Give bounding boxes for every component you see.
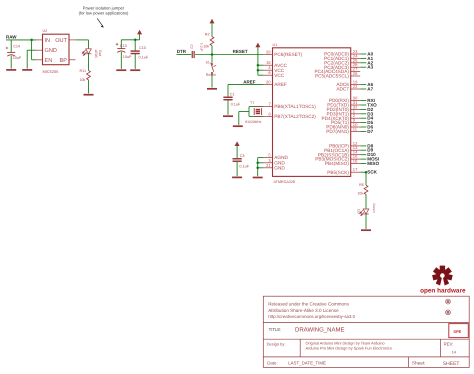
svg-text:open hardware: open hardware bbox=[420, 288, 466, 295]
open hardware logo gear bbox=[433, 266, 452, 287]
wire C14 tap bbox=[10, 40, 12, 52]
wire XTAL2 bbox=[249, 115, 264, 117]
date value bbox=[288, 361, 326, 366]
ground below S1 bbox=[207, 88, 217, 90]
U1 pin 29 PC6(RESET) bbox=[264, 50, 303, 58]
U1 pin 28 PC5(ADC5SCL) bbox=[315, 71, 360, 79]
wire GND pin3 bbox=[258, 162, 264, 164]
junction dot GND3 bbox=[256, 162, 259, 165]
svg-text:PB7(XTAL2TOSC2): PB7(XTAL2TOSC2) bbox=[274, 114, 316, 119]
svg-text:DTR: DTR bbox=[177, 49, 187, 54]
svg-text:D3: D3 bbox=[356, 209, 360, 213]
junction dot SCK bbox=[365, 171, 368, 174]
svg-text:Arduino Pro Mini Design by Spa: Arduino Pro Mini Design by Spark Fun Ele… bbox=[306, 346, 392, 351]
wire C13 to ground bbox=[120, 52, 122, 69]
svg-text:8: 8 bbox=[268, 111, 271, 116]
annotation arrow bbox=[97, 18, 104, 27]
svg-text:GND: GND bbox=[274, 165, 285, 170]
wire resonator ground tap bbox=[239, 112, 249, 125]
wire LED to R11 bbox=[88, 54, 90, 71]
ground below C14 bbox=[6, 69, 16, 71]
capacitor C10 bbox=[131, 46, 149, 60]
wire VCC to C3 bbox=[236, 146, 238, 159]
svg-text:28: 28 bbox=[353, 71, 358, 76]
svg-text:PB6(XTAL1TOSC1): PB6(XTAL1TOSC1) bbox=[274, 104, 316, 109]
title block divider design by cell bbox=[299, 339, 301, 357]
U1 pin 1 PD3(INT1) / net D3 bbox=[326, 109, 373, 117]
title block frame bbox=[263, 296, 469, 367]
U1 pin 3 GND bbox=[264, 158, 286, 166]
design credit line 1 bbox=[306, 340, 385, 345]
ground below U2 GND bbox=[22, 69, 32, 71]
U1 pin 26 PC3(ADC3) / net A3 bbox=[324, 62, 373, 70]
capacitor C14 bbox=[6, 45, 22, 60]
svg-text:SCK: SCK bbox=[367, 170, 377, 175]
ground below C13 bbox=[116, 69, 126, 71]
power VCC arrow above C3 bbox=[235, 141, 240, 146]
U1 pin 13 PB1(OC1A) / net D9 bbox=[324, 145, 373, 153]
svg-text:C10: C10 bbox=[139, 46, 146, 50]
svg-text:S1: S1 bbox=[206, 61, 210, 65]
svg-text:OUT: OUT bbox=[55, 38, 67, 44]
svg-text:10k: 10k bbox=[79, 78, 85, 82]
wire AGND bbox=[258, 158, 264, 177]
svg-text:REV:: REV: bbox=[444, 342, 454, 347]
title label bbox=[269, 327, 282, 332]
wire C3 to ground bbox=[236, 162, 238, 177]
title block divider date/sheet bbox=[408, 357, 410, 368]
power VCC arrow above AVCC bus bbox=[255, 43, 260, 48]
U1 pin 20 AREF bbox=[264, 80, 287, 88]
U2 pin EN bbox=[36, 58, 52, 64]
U1 pin 22 ADC7 / net A7 bbox=[336, 84, 373, 92]
svg-text:AREF: AREF bbox=[274, 82, 287, 87]
capacitor C1 bbox=[223, 93, 241, 107]
wire VCC to R2 bbox=[211, 23, 213, 36]
design by label bbox=[267, 341, 286, 346]
svg-text:Sheet:: Sheet: bbox=[412, 361, 426, 366]
svg-text:16: 16 bbox=[353, 159, 358, 164]
svg-text:C13: C13 bbox=[120, 44, 127, 48]
svg-text:AREF: AREF bbox=[243, 79, 256, 84]
svg-text:SFE: SFE bbox=[453, 329, 461, 334]
wire U2 EN to RAW bbox=[32, 40, 36, 60]
LED power red bbox=[82, 49, 102, 58]
svg-text:A7: A7 bbox=[367, 87, 373, 92]
U1 pin 25 PC2(ADC2) / net A2 bbox=[324, 58, 373, 66]
U1 pin 15 PB3(MOSIOC2) / net MOSI bbox=[315, 154, 379, 162]
wire R6 to LED bbox=[365, 194, 367, 208]
U1 pin 5 AGND bbox=[264, 153, 289, 161]
wire AREF bbox=[228, 84, 264, 86]
wire C1 to ground bbox=[227, 100, 229, 115]
svg-text:VCC: VCC bbox=[274, 73, 285, 78]
U1 pin 8 PB7(XTAL2TOSC2) bbox=[264, 111, 316, 119]
net label DTR bbox=[177, 49, 187, 54]
junction dot AVCC bbox=[257, 64, 260, 67]
wire AREF down to C1 bbox=[227, 85, 229, 97]
rev value bbox=[452, 351, 456, 355]
svg-text:C2: C2 bbox=[190, 45, 194, 49]
U2 pin BP bbox=[60, 58, 76, 64]
svg-text:Design by:: Design by: bbox=[267, 341, 286, 346]
svg-text:20: 20 bbox=[266, 80, 271, 85]
U1 pin 16 PB4(MISO) / net MISO bbox=[325, 159, 380, 167]
svg-text:BP: BP bbox=[60, 58, 68, 64]
wire VCC bus vertical bbox=[257, 47, 259, 75]
ground below IC bbox=[253, 177, 263, 179]
svg-text:11: 11 bbox=[353, 126, 358, 131]
svg-text:Y1: Y1 bbox=[250, 101, 254, 105]
svg-text:C3: C3 bbox=[240, 154, 245, 158]
junction dot RESET bbox=[211, 53, 214, 56]
wire GND pin21 bbox=[258, 167, 264, 169]
wire S1 to ground bbox=[211, 74, 213, 88]
U1 pin 23 PC0(ADC0) / net A0 bbox=[324, 49, 373, 57]
wire to AVCC pin bbox=[258, 64, 264, 66]
wire C10 top bbox=[134, 40, 136, 51]
ground below R11 bbox=[84, 94, 94, 96]
U1 pin 10 PD6(AIN0) / net D6 bbox=[326, 122, 373, 130]
U2 pin OUT bbox=[55, 38, 75, 44]
svg-text:ADC7: ADC7 bbox=[336, 87, 349, 92]
power VCC arrow above C13/C10 bbox=[137, 30, 142, 35]
svg-text:RAW: RAW bbox=[6, 35, 17, 40]
wire DTR to C2 bbox=[177, 54, 192, 56]
wire C13 top bbox=[120, 40, 122, 49]
CC icon 1 bbox=[446, 299, 451, 304]
resonator Y1 bbox=[245, 101, 262, 125]
license text line 3 bbox=[268, 314, 355, 319]
svg-text:17: 17 bbox=[353, 167, 358, 172]
U1 pin 31 PD1(TXD) / net TXO bbox=[327, 100, 377, 108]
net label RESET bbox=[233, 49, 248, 54]
svg-text:22: 22 bbox=[353, 84, 358, 89]
svg-text:PB5(SCK): PB5(SCK) bbox=[327, 170, 349, 175]
svg-text:ATMEGA328: ATMEGA328 bbox=[274, 180, 295, 184]
U1 pin 17 PB5(SCK) / net SCK bbox=[327, 167, 377, 175]
title block divider under title bbox=[263, 338, 469, 340]
svg-text:Attribution Share-Alike 3.0 Li: Attribution Share-Alike 3.0 License bbox=[268, 308, 339, 313]
SFE logo box bbox=[449, 324, 469, 338]
svg-text:PB4(MISO): PB4(MISO) bbox=[325, 161, 349, 166]
U1 pin 21 GND bbox=[264, 163, 286, 171]
open hardware logo text bbox=[420, 288, 466, 295]
rev label bbox=[444, 342, 454, 347]
ground below status LED bbox=[361, 229, 371, 231]
svg-text:EN: EN bbox=[45, 58, 53, 64]
svg-text:6: 6 bbox=[268, 70, 271, 75]
svg-text:7: 7 bbox=[268, 102, 271, 107]
svg-text:Red: Red bbox=[98, 50, 102, 56]
capacitor C3 bbox=[233, 154, 250, 168]
date label bbox=[267, 361, 278, 366]
svg-text:C1: C1 bbox=[230, 93, 235, 97]
U1 pin 14 PB2(SSOC1B) / net D10 bbox=[318, 150, 376, 158]
capacitor C2 bbox=[190, 43, 204, 58]
svg-text:10k: 10k bbox=[203, 45, 209, 49]
U2 pin IN bbox=[36, 38, 50, 44]
U1 pin 6 VCC bbox=[264, 70, 285, 78]
U1 pin 19 ADC6 / net A6 bbox=[336, 80, 373, 88]
wire resonator left bbox=[248, 107, 250, 117]
svg-text:29: 29 bbox=[266, 50, 271, 55]
svg-text:10uF: 10uF bbox=[13, 56, 22, 60]
svg-text:MISO: MISO bbox=[367, 161, 379, 166]
power VCC arrow above R2 bbox=[210, 19, 215, 24]
svg-text:DRAWING_NAME: DRAWING_NAME bbox=[295, 327, 344, 334]
svg-text:0.1uF: 0.1uF bbox=[231, 102, 241, 106]
wire R2 to RESET bbox=[211, 46, 213, 55]
U1 pin 12 PB0(ICP) / net D8 bbox=[329, 141, 374, 149]
net label AREF bbox=[243, 79, 256, 84]
title block divider rev cell bbox=[440, 339, 442, 357]
wire XTAL1 bbox=[249, 106, 264, 108]
switch S1 reset button bbox=[206, 61, 217, 77]
U1 pin 11 PD7(AIN1) / net D7 bbox=[326, 126, 373, 134]
svg-text:GND: GND bbox=[45, 48, 57, 54]
wire C2 to RESET net bbox=[195, 54, 264, 56]
svg-text:PC5(ADC5SCL): PC5(ADC5SCL) bbox=[315, 74, 349, 79]
svg-text:LAST_DATE_TIME: LAST_DATE_TIME bbox=[288, 361, 326, 366]
net label RAW bbox=[6, 35, 17, 40]
svg-text:R6: R6 bbox=[359, 183, 364, 187]
U1 pin 7 PB6(XTAL1TOSC1) bbox=[264, 102, 316, 110]
wire to VCC pin 4 bbox=[258, 69, 264, 71]
wire C10 to ground bbox=[134, 54, 136, 69]
sheet label bbox=[412, 361, 426, 366]
wire VCC to caps bbox=[121, 34, 139, 40]
svg-text:Date:: Date: bbox=[267, 361, 278, 366]
svg-text:PC6(RESET): PC6(RESET) bbox=[274, 52, 302, 57]
drawing name bbox=[295, 327, 344, 334]
wire R11 to ground bbox=[88, 80, 90, 94]
svg-text:C14: C14 bbox=[13, 45, 20, 49]
svg-text:R11: R11 bbox=[80, 69, 87, 73]
svg-text:A3: A3 bbox=[367, 65, 373, 70]
wire SCK to R6 bbox=[365, 172, 367, 185]
wire C14 to ground bbox=[10, 56, 12, 69]
svg-text:Original Arduino Mini Design b: Original Arduino Mini Design by Team Ard… bbox=[306, 340, 385, 345]
op-amp U2 MIC5205 regulator box bbox=[43, 29, 70, 74]
svg-text:0.1uF: 0.1uF bbox=[239, 165, 249, 169]
wire LED to ground bbox=[365, 214, 367, 229]
junction dot VCC4 bbox=[257, 69, 260, 72]
svg-text:81620MHz: 81620MHz bbox=[245, 120, 262, 124]
U1 pin 32 PD2(INT0) / net D2 bbox=[326, 104, 373, 112]
U1 pin 4 VCC bbox=[264, 65, 285, 73]
svg-text:IN: IN bbox=[45, 38, 51, 44]
U1 pin 9 PD5(T1) / net D5 bbox=[331, 118, 373, 126]
U1 pin 24 PC1(ADC1) / net A1 bbox=[324, 53, 373, 61]
ground below resonator bbox=[233, 125, 243, 127]
ground below C3 bbox=[232, 176, 242, 178]
CC icon 2 bbox=[446, 310, 451, 315]
junction dot C10 bbox=[134, 39, 137, 42]
svg-text:Green: Green bbox=[372, 203, 376, 212]
capacitor C13 bbox=[116, 43, 132, 59]
wire to VCC pin 6 bbox=[258, 74, 264, 76]
U1 pin 27 PC4(ADC4SDA) bbox=[315, 67, 361, 75]
svg-text:R2: R2 bbox=[205, 33, 210, 37]
resistor R2 bbox=[203, 33, 214, 49]
U1 pin 2 PD4(XCKT0) / net D4 bbox=[322, 113, 374, 121]
ground below C10 bbox=[130, 69, 140, 71]
svg-text:PD7(AIN1): PD7(AIN1) bbox=[326, 129, 349, 134]
svg-text:Reset: Reset bbox=[206, 73, 217, 77]
resistor R11 bbox=[79, 69, 90, 82]
svg-text:LED5: LED5 bbox=[94, 50, 98, 58]
svg-text:10uF: 10uF bbox=[123, 55, 132, 59]
svg-text:21: 21 bbox=[266, 163, 271, 168]
svg-text:MIC5205: MIC5205 bbox=[43, 69, 59, 74]
license text line 2 bbox=[268, 308, 339, 313]
title block divider under design bbox=[263, 356, 469, 358]
wire RESET to S1 bbox=[211, 55, 213, 63]
wire U2 OUT to LED bbox=[76, 40, 89, 49]
title block divider under license bbox=[263, 321, 469, 323]
svg-text:14: 14 bbox=[452, 351, 456, 355]
svg-text:RESET: RESET bbox=[233, 49, 248, 54]
U1 pin 18 AVCC bbox=[264, 60, 288, 68]
license text line 1 bbox=[268, 302, 349, 307]
svg-text:Released under the Creative Co: Released under the Creative Commons bbox=[268, 302, 349, 307]
LED status green bbox=[356, 203, 376, 215]
svg-text:10k: 10k bbox=[357, 192, 363, 196]
svg-text:(for low power applications): (for low power applications) bbox=[79, 10, 129, 15]
svg-text:D7: D7 bbox=[367, 129, 373, 134]
wire RAW to U2 IN bbox=[6, 39, 36, 41]
svg-text:U1: U1 bbox=[273, 43, 278, 47]
svg-text:TITLE:: TITLE: bbox=[269, 327, 282, 332]
svg-text:SHEET: SHEET bbox=[443, 361, 460, 367]
wire U2 GND to ground bbox=[27, 50, 36, 68]
U2 pin GND bbox=[36, 48, 57, 54]
junction dot GND21 bbox=[256, 167, 259, 170]
svg-text:0.1uF: 0.1uF bbox=[139, 55, 149, 59]
svg-text:http://creativecommons.org/lic: http://creativecommons.org/licensesby-sa… bbox=[268, 314, 355, 319]
resistor R6 bbox=[357, 183, 368, 196]
annotation: power isolation jumper note bbox=[79, 5, 129, 15]
design credit line 2 bbox=[306, 346, 392, 351]
junction dot RAW/EN bbox=[30, 39, 32, 42]
ground below C1 bbox=[223, 115, 233, 117]
U1 pin 30 PD0(RXI) / net RXI bbox=[329, 96, 375, 104]
op-amp U1 ATMEGA328 box bbox=[273, 43, 351, 184]
svg-text:U2: U2 bbox=[43, 29, 48, 33]
sheet value bbox=[443, 361, 460, 367]
